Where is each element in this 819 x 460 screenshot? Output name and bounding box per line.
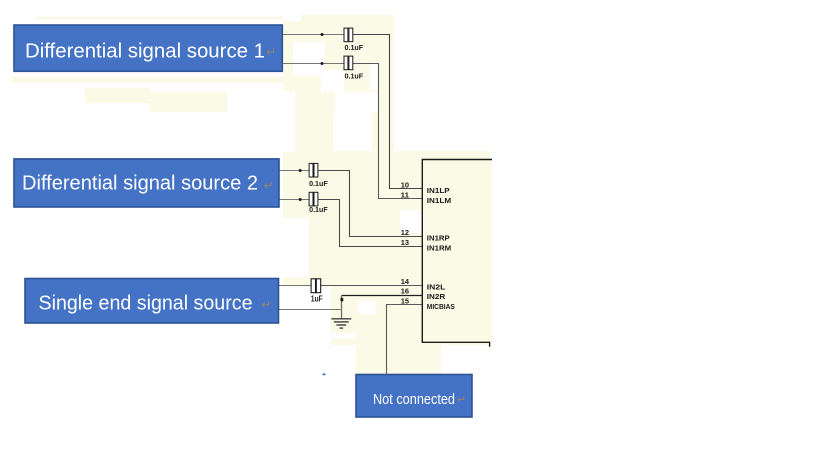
wire net5: box3 top output to cap C5	[277, 285, 311, 287]
ground symbol	[331, 319, 351, 328]
svg-text:↵: ↵	[261, 298, 271, 312]
wire net4b: cap C4 to IC pin 13	[318, 200, 422, 247]
wire net2: box1 bottom output to cap C2	[283, 63, 344, 65]
wire net4: box2 bottom output to cap C4	[279, 199, 310, 201]
wire net6: IN2R to ground node	[342, 295, 423, 297]
svg-text:0.1uF: 0.1uF	[309, 205, 328, 214]
callout box: Differential signal source 1	[14, 25, 282, 71]
svg-text:IN1LP: IN1LP	[427, 186, 450, 195]
wire net2b: cap C2 to IC pin 11	[353, 64, 423, 199]
capacitor C5 1uF	[311, 279, 321, 293]
white compression patches carved out of yellow	[283, 15, 490, 376]
capacitor C1 0.1uF	[344, 28, 353, 42]
junction dot on net6 ground node	[340, 298, 343, 302]
wire net1b: cap C1 to IC pin 10	[353, 35, 423, 189]
svg-text:14: 14	[401, 277, 410, 286]
wire net3: box2 top output to cap C3	[279, 170, 310, 172]
svg-text:↵: ↵	[457, 394, 466, 406]
junction dot on net4	[299, 198, 302, 201]
wire net1: box1 top output to cap C1	[283, 34, 344, 36]
stray blue dash artifact	[323, 374, 326, 376]
svg-text:Single end signal source: Single end signal source	[39, 293, 253, 315]
svg-text:↵: ↵	[266, 45, 276, 59]
wire net5b: cap C5 to IC pin 14	[320, 285, 422, 287]
schematic pale-yellow background patches	[12, 15, 490, 375]
capacitor C4 0.1uF	[309, 192, 318, 206]
wire net6b: box3 bottom output to ground node	[277, 309, 342, 311]
callout box: Single end signal source	[25, 279, 279, 324]
svg-text:11: 11	[401, 190, 409, 199]
wire net3b: cap C3 to IC pin 12	[318, 171, 422, 237]
callout box: Differential signal source 2	[14, 159, 279, 207]
svg-text:Differential signal source 1: Differential signal source 1	[25, 41, 265, 63]
IC U1 body fill	[422, 160, 492, 343]
capacitor C3 0.1uF	[309, 163, 318, 177]
svg-text:↵: ↵	[264, 179, 274, 193]
svg-text:IN1RP: IN1RP	[427, 233, 450, 242]
capacitor C2 0.1uF	[344, 56, 353, 70]
svg-text:Differential signal source 2: Differential signal source 2	[22, 172, 258, 194]
junction dot on net1	[321, 33, 324, 36]
svg-text:IN1RM: IN1RM	[427, 243, 451, 252]
callout box: Not connected	[356, 375, 472, 418]
svg-text:1uF: 1uF	[311, 295, 323, 304]
svg-text:13: 13	[401, 238, 409, 247]
junction dot on net3	[299, 169, 302, 172]
svg-text:0.1uF: 0.1uF	[345, 43, 364, 52]
svg-text:16: 16	[401, 287, 409, 296]
svg-text:Not connected: Not connected	[373, 391, 455, 408]
svg-text:0.1uF: 0.1uF	[309, 179, 328, 188]
junction dot on net2	[321, 62, 324, 65]
svg-text:IN2R: IN2R	[427, 292, 446, 301]
wire net7: MICBIAS to Not-connected box	[387, 305, 423, 375]
svg-text:MICBIAS: MICBIAS	[427, 302, 455, 311]
svg-text:IN1LM: IN1LM	[427, 196, 451, 205]
svg-text:15: 15	[401, 296, 409, 305]
svg-text:IN2L: IN2L	[427, 282, 446, 291]
svg-text:12: 12	[401, 228, 409, 237]
svg-text:0.1uF: 0.1uF	[345, 71, 364, 80]
IC U1 outline (right side clipped)	[422, 160, 492, 347]
svg-text:10: 10	[401, 180, 409, 189]
